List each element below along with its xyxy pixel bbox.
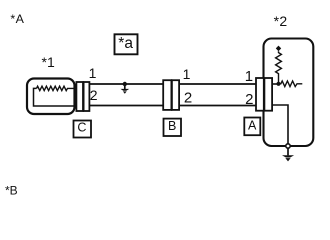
connector letter box A <box>244 118 260 136</box>
svg-text:*A: *A <box>10 12 24 26</box>
svg-text:1: 1 <box>183 66 191 82</box>
svg-text:2: 2 <box>245 91 253 108</box>
ground on top wire <box>120 82 129 94</box>
wire pin2 inside *2 to ground <box>272 105 288 144</box>
case pass-through node (open circle) <box>286 144 290 148</box>
svg-text:A: A <box>248 118 257 132</box>
connector letter box B <box>164 119 182 136</box>
component *2 case <box>264 39 314 147</box>
svg-text:1: 1 <box>245 68 253 85</box>
svg-text:2: 2 <box>90 87 98 103</box>
svg-text:*B: *B <box>5 183 18 197</box>
note box *a <box>115 34 138 54</box>
connector B bars <box>163 80 179 110</box>
wire pin1 C to A <box>89 83 257 85</box>
svg-text:2: 2 <box>184 89 192 106</box>
connector letter box C <box>74 121 92 138</box>
wire pin1 inside *2 <box>272 83 279 85</box>
connector A bars <box>256 78 272 111</box>
internal horizontal resistor in *2 <box>279 81 303 87</box>
svg-text:*1: *1 <box>42 54 55 70</box>
wire pin2 C to A <box>89 105 257 107</box>
component *1 internal wire loop <box>34 88 79 106</box>
resistor in *1 <box>37 86 79 90</box>
svg-text:*2: *2 <box>274 13 288 29</box>
internal vertical resistor in *2 <box>276 51 282 84</box>
component *1 case <box>27 79 75 115</box>
svg-text:*a: *a <box>118 35 133 52</box>
connector C bars <box>76 82 89 111</box>
svg-text:1: 1 <box>89 65 97 81</box>
svg-text:B: B <box>168 119 176 133</box>
ground below *2 <box>282 148 294 161</box>
svg-text:C: C <box>77 121 86 135</box>
node diamond at top of internal resistor <box>276 46 281 52</box>
junction node <box>276 82 280 86</box>
